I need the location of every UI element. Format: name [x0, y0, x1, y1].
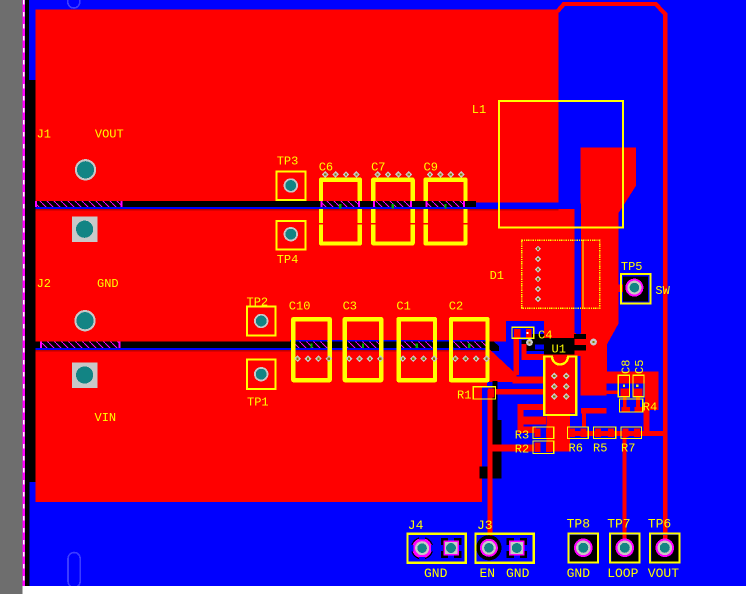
- svg-text:J2: J2: [37, 277, 51, 291]
- blue sliver below gap B: [35, 348, 489, 350]
- TP5 pad: [623, 276, 648, 301]
- diode D1 outline: [522, 240, 600, 308]
- SW/VOUT loop trace top right: [558, 4, 666, 534]
- svg-text:TP6: TP6: [648, 517, 671, 532]
- svg-text:VOUT: VOUT: [95, 128, 124, 142]
- black stubs on GND strip: [574, 334, 586, 339]
- blue sliver top-left: [29, 10, 36, 80]
- pour edge dark line below gap B: [35, 350, 489, 351]
- capacitor C2 outline: [451, 319, 487, 380]
- blue sliver above gap B: [290, 340, 489, 342]
- C8 C5 pour block: [580, 372, 659, 384]
- capacitor C1 outline: [399, 319, 435, 380]
- connector J1 pad 1: [75, 159, 96, 180]
- net tie green marks middle row: [310, 344, 312, 349]
- svg-text:C6: C6: [319, 161, 333, 175]
- svg-text:U1: U1: [552, 343, 566, 357]
- J3 pad 1: [476, 535, 501, 560]
- hatched VIN trace segments: [41, 342, 120, 349]
- C1 vias over outline: [400, 355, 407, 362]
- svg-text:TP8: TP8: [567, 517, 590, 532]
- svg-text:C1: C1: [396, 300, 410, 314]
- svg-text:J4: J4: [408, 518, 424, 533]
- LOOP trace into TP7: [623, 535, 627, 543]
- svg-text:R3: R3: [515, 429, 529, 443]
- D1 vias: [535, 246, 541, 252]
- left pasteboard gray margin: [0, 0, 23, 594]
- capacitor C8 outline: [618, 375, 629, 397]
- R2 pads: [535, 442, 541, 452]
- U1 right stub traces: [581, 408, 607, 414]
- svg-text:C2: C2: [449, 300, 463, 314]
- R5 pads: [595, 429, 601, 438]
- svg-text:R7: R7: [621, 442, 635, 456]
- C2 vias over outline: [452, 355, 459, 362]
- U1 red column: [544, 322, 576, 414]
- VOUT trace into TP6: [663, 535, 667, 543]
- svg-text:SW: SW: [655, 284, 670, 298]
- U1 to R2 trace: [518, 417, 546, 425]
- C2 vias: [452, 355, 459, 362]
- net tie green marks top row: [339, 204, 341, 209]
- R3 pads: [535, 429, 541, 438]
- via near D1: [590, 339, 597, 346]
- R7 pads: [623, 429, 629, 438]
- svg-text:R6: R6: [569, 442, 583, 456]
- test point TP4 outline: [277, 221, 306, 249]
- TP7 pad: [611, 535, 638, 562]
- TP4 pad: [284, 227, 298, 241]
- board outline magenta dashed: [23, 0, 26, 586]
- C3 vias: [346, 355, 353, 362]
- resistor R6 outline: [568, 427, 589, 439]
- J4 pad 2: [441, 538, 462, 558]
- svg-text:GND: GND: [97, 277, 119, 291]
- inductor L1 outline: [499, 101, 623, 228]
- C8 connect stub: [607, 390, 619, 394]
- J4 pad 1: [411, 537, 434, 560]
- via near C4: [526, 339, 533, 346]
- svg-text:L1: L1: [472, 103, 486, 117]
- C5 bottom pad: [634, 389, 643, 397]
- C8 C5 via dots: [623, 385, 625, 387]
- VIN trace corner wedge (black): [484, 342, 500, 352]
- svg-text:TP1: TP1: [247, 396, 269, 410]
- resistor R3 outline: [533, 427, 554, 439]
- black trace near C4: [521, 340, 544, 351]
- svg-text:TP5: TP5: [621, 260, 643, 274]
- middle copper pour GND net: [35, 209, 574, 342]
- C8 bottom pad: [620, 389, 629, 397]
- test point TP7 outline: [610, 534, 640, 563]
- capacitor C10 outline: [293, 319, 329, 380]
- mounting hole bottom slot: [68, 553, 80, 588]
- connector J3 outline: [475, 534, 533, 563]
- TP8 pad: [570, 535, 597, 562]
- EN trace to J3: [487, 390, 492, 548]
- VIN net trace (black gap B): [35, 342, 489, 349]
- test point TP1 outline: [247, 360, 276, 390]
- svg-text:J3: J3: [477, 518, 493, 533]
- svg-text:C4: C4: [538, 329, 552, 343]
- resistor R1 outline: [473, 387, 495, 399]
- svg-text:VIN: VIN: [95, 411, 117, 425]
- VOUT net trace (black gap A): [35, 201, 476, 207]
- resistor R5 outline: [594, 427, 616, 439]
- resistor R7 outline: [621, 427, 642, 439]
- svg-text:GND: GND: [506, 566, 530, 581]
- svg-text:J1: J1: [37, 128, 51, 142]
- test point TP6 outline: [650, 534, 680, 563]
- connector J4 outline: [408, 534, 466, 563]
- TP2 pad: [254, 314, 268, 328]
- R2 connecting trace: [488, 444, 535, 451]
- connector J1 pad 2: [72, 217, 97, 243]
- resistor R4 outline: [620, 399, 643, 412]
- connector J2 pad 2: [72, 362, 97, 388]
- svg-text:C3: C3: [343, 300, 357, 314]
- svg-text:TP2: TP2: [247, 296, 269, 310]
- blue sliver bottom-left: [30, 482, 36, 586]
- pour edge dark line below gap A: [35, 209, 558, 210]
- svg-text:TP7: TP7: [607, 517, 630, 532]
- R6-R5-R7 horizontal trace: [570, 431, 665, 436]
- test point TP5 outline: [621, 274, 651, 304]
- svg-text:R5: R5: [593, 442, 607, 456]
- C6 vias: [322, 171, 329, 178]
- test point TP2 outline: [247, 307, 276, 336]
- svg-text:D1: D1: [490, 269, 504, 283]
- svg-text:TP4: TP4: [277, 253, 299, 267]
- test point TP3 outline: [277, 171, 306, 199]
- svg-text:EN: EN: [480, 566, 496, 581]
- VIN black vertical trace: [493, 381, 498, 471]
- test point TP8 outline: [569, 534, 599, 563]
- R4 to R7 vertical trace: [644, 406, 650, 434]
- bottom white margin: [23, 586, 746, 594]
- U1 pads: [551, 372, 558, 379]
- C9 vias: [427, 171, 434, 178]
- svg-text:C5: C5: [633, 360, 647, 374]
- C1 vias: [400, 355, 407, 362]
- resistor R2 outline: [533, 441, 554, 454]
- svg-text:R2: R2: [515, 443, 529, 457]
- SW node red column: [581, 148, 636, 372]
- TP6 pad: [651, 535, 678, 562]
- connector J2 pad 1: [74, 310, 95, 331]
- svg-text:C10: C10: [289, 300, 311, 314]
- capacitor C6 outline: [321, 180, 360, 201]
- svg-text:R4: R4: [643, 401, 657, 415]
- C4 trace L1: [514, 337, 520, 375]
- svg-text:GND: GND: [567, 566, 591, 581]
- C4 trace L2: [522, 344, 527, 360]
- blue cutout left of U1: [506, 321, 544, 342]
- capacitor C9 outline: [426, 180, 466, 201]
- TP3 pad: [284, 178, 298, 192]
- svg-text:C8: C8: [620, 360, 634, 374]
- capacitor C3 outline: [345, 319, 381, 380]
- TP1 pad: [254, 367, 268, 381]
- blue sliver below gap A: [35, 207, 558, 209]
- C3 vias over outline: [346, 355, 353, 362]
- C4 pads: [514, 329, 521, 338]
- GND blue strip between pours: [575, 204, 581, 333]
- svg-text:C9: C9: [424, 161, 438, 175]
- C10 vias over outline: [294, 355, 301, 362]
- svg-text:VOUT: VOUT: [648, 566, 679, 581]
- LOOP trace to TP7: [623, 433, 627, 536]
- svg-text:C7: C7: [371, 161, 385, 175]
- bottom copper pour VIN net: [35, 350, 482, 502]
- R1 to U1 trace: [495, 389, 543, 395]
- C10 vias: [294, 355, 301, 362]
- U1 lower-left traces: [518, 404, 544, 410]
- svg-text:GND: GND: [424, 566, 448, 581]
- R6 pads: [569, 429, 575, 438]
- capacitor C5 outline: [633, 375, 644, 397]
- C7 vias: [374, 171, 381, 178]
- board edge black strip: [23, 10, 35, 586]
- svg-text:R1: R1: [457, 389, 471, 403]
- R1 pad: [488, 389, 495, 398]
- mounting hole top slot: [68, 0, 80, 8]
- svg-text:LOOP: LOOP: [607, 566, 638, 581]
- capacitor C4 outline: [512, 327, 534, 338]
- svg-text:TP3: TP3: [277, 155, 299, 169]
- red pour triangle below VIN trace corner: [482, 342, 517, 382]
- J3 pad 2: [507, 538, 527, 558]
- top copper pour VOUT net: [35, 10, 558, 201]
- capacitor C7 outline: [373, 180, 412, 201]
- TP5 connect stub: [617, 285, 624, 293]
- hatched VOUT trace segments: [36, 201, 122, 207]
- IC U1 outline: [544, 357, 576, 416]
